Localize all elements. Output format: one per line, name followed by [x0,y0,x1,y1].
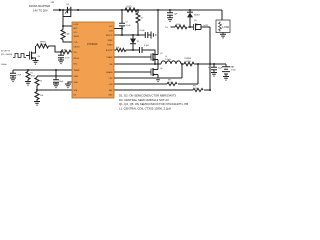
svg-text:SW: SW [109,64,112,66]
svg-text:1k: 1k [40,81,42,83]
svg-text:PROG: PROG [74,58,80,60]
ground C6 [211,73,217,77]
wire INTVCC row [114,34,145,36]
svg-text:Q2: Q2 [160,68,164,70]
diode D3 boost [130,34,139,51]
capacitor C1 10µF [53,70,64,84]
svg-text:4.7nF: 4.7nF [17,74,22,76]
svg-text:PGND: PGND [107,45,113,47]
node VIN label [51,2,55,4]
resistor R7 22.1k [37,41,62,52]
svg-text:12.6V: 12.6V [231,70,237,72]
capacitor C3 1µF [167,9,178,18]
square wave source [13,54,30,58]
svg-text:VREF: VREF [107,40,113,42]
svg-text:Q4: Q4 [38,56,41,58]
svg-text:10kHz: 10kHz [1,64,7,66]
capacitor C5 boost [140,45,156,64]
capacitor C7 4.7nF [58,52,70,60]
svg-text:FROM ADAPTER: FROM ADAPTER [29,4,50,8]
svg-text:SHDN: SHDN [74,36,80,38]
inductor L1 2.2µH [161,56,184,64]
capacitor C2 0.1µF [119,10,131,36]
svg-text:0.1µF: 0.1µF [126,25,132,27]
wire top rail [63,9,222,11]
ground C3 [167,18,173,22]
svg-text:VIN: VIN [51,2,55,4]
resistor R10 1k [35,76,42,91]
text notes [119,94,188,111]
resistor RSENSE 0.025Ω [181,58,226,66]
svg-text:TGATE: TGATE [106,56,113,59]
wire CSP row [114,64,182,78]
load box [216,20,230,33]
resistor R4 3.01k [114,64,198,86]
svg-text:D3: D3 [137,41,139,43]
svg-text:TIMER: TIMER [74,70,81,72]
wire load drop [221,10,223,20]
wire TIMER row [13,69,72,71]
wire TGATE row [114,56,151,58]
svg-text:L1: L1 [165,56,168,58]
svg-text:BGATE: BGATE [106,71,113,74]
svg-text:TG: TG [165,27,168,29]
transistor Q2 [151,64,164,78]
resistor R-CL 100k [61,10,72,42]
svg-text:Q3: Q3 [66,4,70,6]
svg-text:10k: 10k [40,95,43,97]
transistor Q1 [151,9,164,64]
wire SW row [114,63,161,65]
capacitor C4 2.2µF [140,30,152,38]
text adapter input [29,4,50,13]
ground C8 [10,78,16,82]
svg-text:0V OR 5V: 0V OR 5V [1,51,11,53]
svg-text:0.1µF: 0.1µF [144,45,150,47]
ground C1 [53,84,59,88]
svg-text:CELLS: CELLS [74,47,81,49]
wire input arrow [53,9,63,12]
wire pin CLP [114,28,122,30]
svg-text:1N5817: 1N5817 [194,14,200,16]
svg-text:BOOST: BOOST [106,50,113,52]
ground Q2 [155,78,161,82]
resistor R6 100k [171,24,194,29]
svg-text:(0V = SHDN): (0V = SHDN) [1,54,12,56]
wire VFB row [37,89,72,91]
svg-text:1µF: 1µF [174,14,178,16]
resistor R3 10Ω [114,47,140,51]
wire VSET row [37,75,72,77]
svg-text:14V TO 28V: 14V TO 28V [33,9,48,13]
resistor R8 3.3k [60,50,72,54]
svg-text:10µF: 10µF [59,81,64,83]
svg-text:CLN: CLN [109,31,113,33]
svg-text:4.7nF: 4.7nF [65,57,70,59]
svg-text:L1: CENTRAL COIL CTX02-13836,: L1: CENTRAL COIL CTX02-13836, 2.2µH [119,106,171,110]
svg-text:RSENSE: RSENSE [185,58,191,60]
transistor Q4 [30,46,41,61]
capacitor C6 10µF [208,63,223,73]
text PWM source labels [1,51,12,67]
svg-text:VCC: VCC [74,32,79,34]
svg-text:Q5: Q5 [194,20,198,22]
svg-text:2.2µF: 2.2µF [140,30,146,32]
svg-text:CLN: CLN [74,42,78,44]
diode D1 [187,9,200,28]
svg-text:INTVCC: INTVCC [106,35,113,37]
ground Q4 [33,61,39,65]
svg-text:NTC: NTC [74,64,79,66]
resistor R1 6.8Ω [121,7,139,12]
svg-text:Q1: Q1 [160,53,164,55]
op-amp U1 LTC4012 [72,22,114,98]
ground GND pin [65,82,72,88]
svg-text:VSET: VSET [74,76,80,78]
ground R11 [34,102,40,106]
svg-text:C2: C2 [126,22,128,24]
ground load [220,33,226,38]
node TG flag [165,27,168,29]
transistor Q3 [63,4,79,17]
svg-text:BAT: BAT [231,66,236,69]
ground R9 [25,82,31,86]
resistor R5 1.13k [114,85,211,91]
ground sideways [151,32,156,39]
svg-text:301k: 301k [31,75,35,77]
capacitor C8 4.7nF [10,70,22,78]
svg-text:LTC4012: LTC4012 [87,42,98,46]
svg-text:6.8Ω: 6.8Ω [127,7,132,9]
ground battery [223,77,229,81]
wire BGATE row [114,71,151,73]
svg-text:1k: 1k [141,18,144,20]
resistor R11 10k [35,90,43,102]
svg-text:CSN: CSN [109,84,114,86]
svg-text:DCIN: DCIN [74,24,79,26]
svg-text:10µF: 10µF [218,68,223,70]
svg-text:RT: RT [31,73,33,75]
wire Q5 to battery [209,27,211,90]
node input junction [62,9,64,11]
svg-text:GND: GND [108,95,113,97]
svg-text:LOAD: LOAD [222,26,229,29]
svg-text:GND: GND [74,82,79,84]
svg-text:100k: 100k [65,34,71,36]
transistor Q5 [194,20,211,30]
resistor R9 301k [26,70,35,82]
resistor R2 1k [136,10,144,36]
ground C7 [58,60,64,64]
battery BAT 12.6V [222,64,236,77]
